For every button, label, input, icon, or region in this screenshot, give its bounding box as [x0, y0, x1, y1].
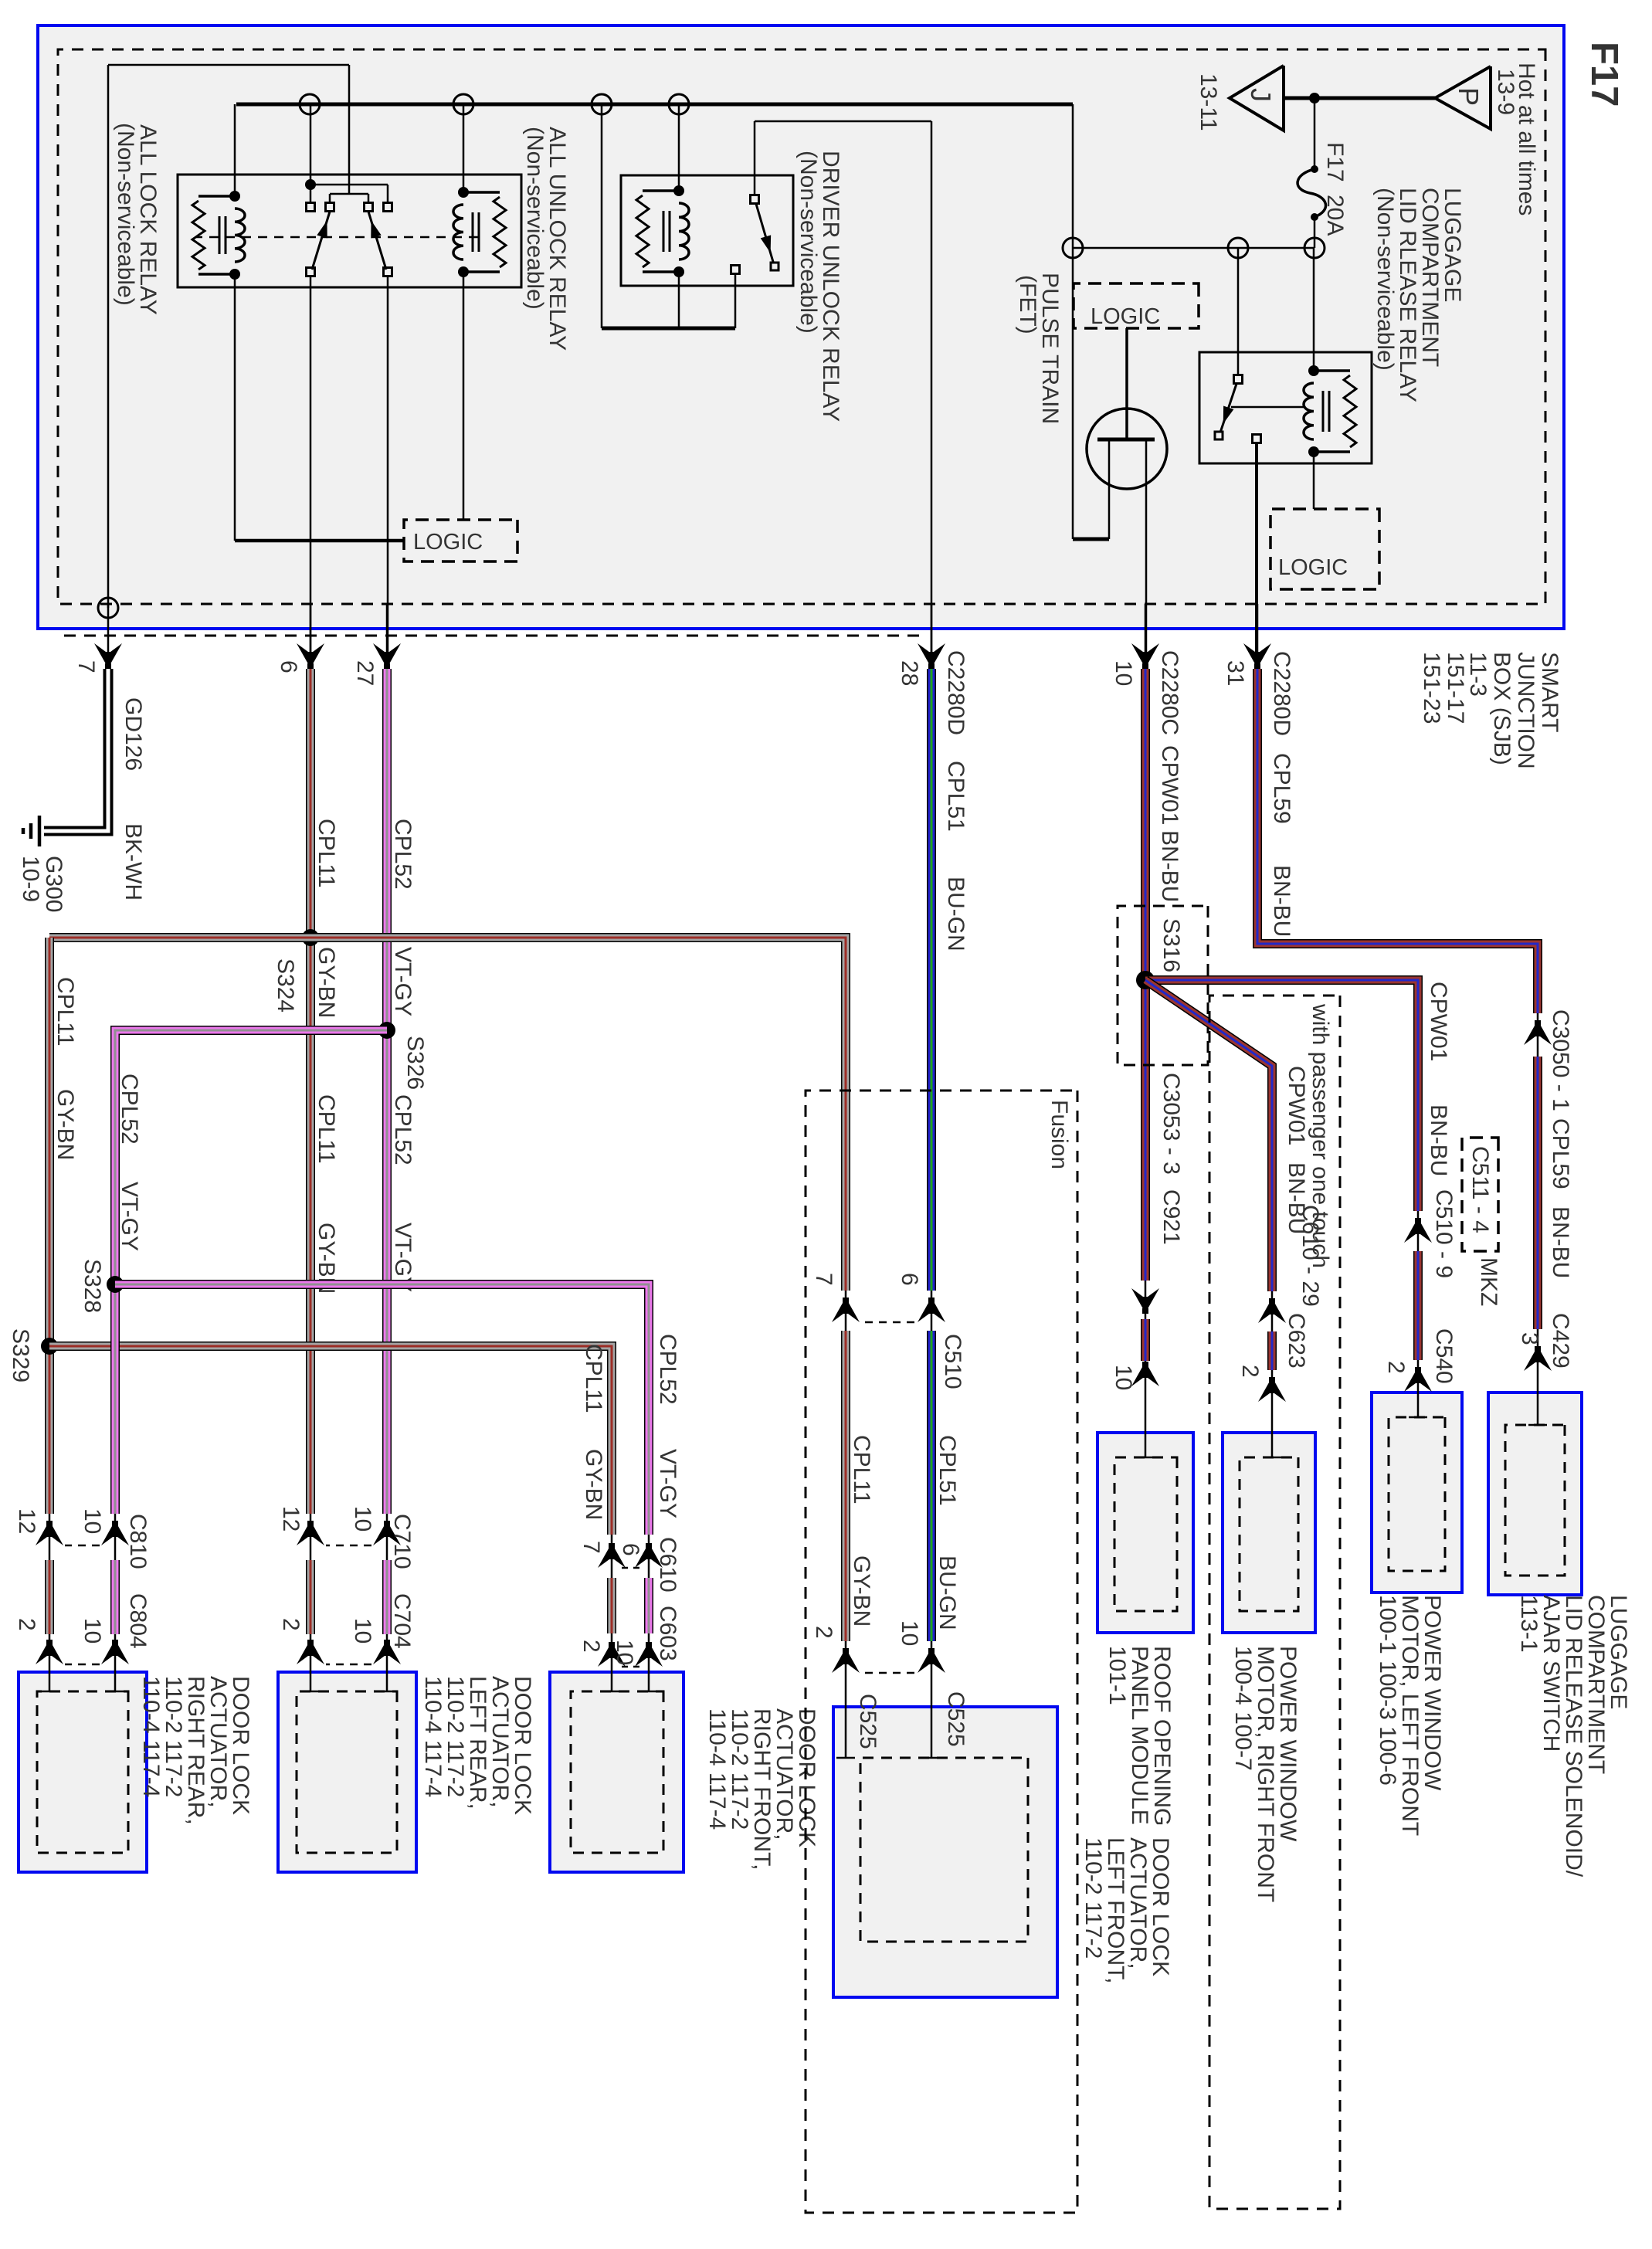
svg-text:CPL11: CPL11	[314, 819, 339, 888]
connector C510 pins 6 7	[811, 1273, 965, 1389]
svg-text:(Non-serviceable): (Non-serviceable)	[1372, 188, 1398, 371]
svg-text:2: 2	[1383, 1361, 1409, 1374]
connector C3050 - 1	[1524, 1009, 1573, 1111]
svg-text:LOGIC: LOGIC	[1091, 304, 1160, 329]
svg-text:CPW01: CPW01	[1284, 1066, 1309, 1145]
label CPL11 GY-BN (3)	[53, 977, 78, 1160]
option box Fusion	[806, 1091, 1077, 2213]
svg-text:6: 6	[897, 1273, 922, 1286]
svg-text:(FET): (FET)	[1015, 275, 1040, 334]
wire S324 branch CPL11	[49, 938, 855, 1758]
wire S326 branch to S328	[106, 1030, 387, 1691]
svg-text:BU-GN: BU-GN	[943, 877, 968, 951]
svg-text:2: 2	[1237, 1365, 1263, 1378]
label ALL UNLOCK RELAY	[522, 127, 570, 351]
label CPW01 BN-BU (branch LF)	[1426, 982, 1451, 1176]
svg-text:C2280D: C2280D	[943, 650, 968, 735]
svg-text:MKZ: MKZ	[1476, 1257, 1501, 1306]
dashed linkage line relays	[196, 236, 478, 239]
svg-text:with passenger one touch: with passenger one touch	[1308, 1003, 1333, 1268]
svg-text:110-4 117-4: 110-4 117-4	[420, 1676, 446, 1797]
svg-text:GY-BN: GY-BN	[849, 1555, 874, 1627]
svg-text:P: P	[1453, 87, 1484, 106]
connector pin 27 SJB exit	[352, 604, 401, 686]
option box MKZ C511 - 4	[1462, 1138, 1501, 1306]
LOGIC box 1	[404, 520, 517, 561]
label DRIVER UNLOCK RELAY	[795, 151, 843, 422]
wire CPL51 BU-GN	[922, 669, 941, 1758]
svg-text:(Non-serviceable): (Non-serviceable)	[795, 151, 821, 334]
svg-text:CPL11: CPL11	[849, 1435, 874, 1504]
svg-text:C429: C429	[1548, 1313, 1573, 1369]
svg-text:LOGIC: LOGIC	[413, 530, 483, 555]
svg-text:BN-BU: BN-BU	[1548, 1206, 1573, 1278]
splice S326	[378, 1022, 428, 1090]
svg-text:LOGIC: LOGIC	[1278, 555, 1348, 580]
svg-text:S324: S324	[273, 958, 298, 1013]
svg-text:CPL59: CPL59	[1269, 753, 1294, 824]
splice S324	[273, 929, 319, 1013]
wire CPL11 GY-BN main	[301, 669, 320, 1691]
svg-text:C510 - 9: C510 - 9	[1431, 1189, 1457, 1278]
power triangle P	[1435, 66, 1491, 129]
label Hot at all times 13-9	[1493, 63, 1539, 215]
svg-text:12: 12	[278, 1506, 304, 1532]
label CPL52 VT-GY (3)	[117, 1074, 142, 1251]
svg-text:S329: S329	[8, 1328, 33, 1382]
wire CPW01 BN-BU	[1136, 669, 1155, 1457]
svg-text:(Non-serviceable): (Non-serviceable)	[522, 127, 548, 310]
label CPL11 GY-BN (2)	[314, 1094, 339, 1294]
splice S329	[8, 1328, 58, 1382]
switch ALL LOCK/UNLOCK contacts	[305, 104, 392, 276]
coil LUGGAGE relay	[1304, 248, 1356, 509]
svg-text:C603: C603	[655, 1606, 680, 1661]
svg-text:7: 7	[73, 660, 99, 673]
svg-text:10: 10	[897, 1620, 922, 1646]
label CPL11 GY-BN (4)	[581, 1344, 606, 1520]
switch LUGGAGE relay contact	[1215, 248, 1304, 443]
svg-text:S328: S328	[80, 1259, 105, 1313]
wire S329 branch to C610	[49, 1346, 621, 1691]
svg-text:GY-BN: GY-BN	[314, 947, 339, 1018]
svg-text:6: 6	[276, 660, 301, 673]
svg-text:VT-GY: VT-GY	[117, 1182, 142, 1251]
svg-text:2: 2	[578, 1640, 604, 1653]
component LUGGAGE LID RELEASE SOLENOID / AJAR SWITCH	[1488, 1392, 1631, 1878]
relay box LUGGAGE LID RELEASE	[1199, 352, 1372, 463]
svg-text:CPW01: CPW01	[1157, 745, 1182, 825]
label CPL51 BU-GN (2)	[935, 1435, 960, 1630]
connector C704 pins 10 2	[278, 1593, 415, 1664]
wire relay return frame	[108, 65, 349, 608]
svg-text:7: 7	[578, 1541, 604, 1554]
svg-text:BN-BU: BN-BU	[1426, 1104, 1451, 1176]
connector C429 pin 3	[1517, 1313, 1573, 1371]
svg-text:BN-BU: BN-BU	[1269, 865, 1294, 937]
SJB connector face dashed line	[58, 635, 919, 637]
svg-text:151-17: 151-17	[1443, 652, 1468, 724]
relay box ALL LOCK / ALL UNLOCK	[178, 175, 521, 287]
label ALL LOCK RELAY	[113, 123, 161, 315]
connector pin 31 SJB exit	[1223, 604, 1271, 686]
connector C921 pin 10	[1111, 1189, 1184, 1390]
svg-text:C3050 - 1: C3050 - 1	[1548, 1009, 1573, 1111]
node circle rail bottom	[1063, 238, 1083, 258]
connector C525 pins 10 2	[811, 1620, 968, 1749]
svg-text:10: 10	[80, 1618, 105, 1643]
connector C610 pins 6 7	[578, 1537, 680, 1593]
svg-text:G300: G300	[41, 856, 66, 912]
label CPL52 VT-GY (2)	[390, 1094, 416, 1292]
svg-text:151-23: 151-23	[1419, 652, 1444, 724]
coil ALL UNLOCK relay	[453, 104, 506, 520]
wire pin27 internal	[387, 276, 388, 656]
svg-text:C511 - 4: C511 - 4	[1467, 1146, 1493, 1233]
svg-text:J: J	[1245, 88, 1277, 102]
coil DRIVER UNLOCK relay	[636, 104, 689, 328]
svg-text:CPL52: CPL52	[655, 1334, 680, 1405]
component DOOR LOCK ACTUATOR RIGHT FRONT	[550, 1672, 819, 1872]
wire CPL59 BN-BU	[1257, 669, 1547, 1425]
wire internal bus (thick)	[236, 104, 1073, 539]
svg-text:20A: 20A	[1322, 195, 1348, 236]
label LUGGAGE COMPARTMENT LID RELEASE RELAY	[1372, 188, 1465, 402]
page title F17	[1583, 42, 1625, 107]
svg-text:JUNCTION: JUNCTION	[1513, 652, 1538, 769]
switch DRIVER UNLOCK contact	[731, 121, 779, 274]
wire S328 branch to C610	[115, 1284, 658, 1691]
svg-text:GY-BN: GY-BN	[581, 1449, 606, 1520]
label CPL11 GY-BN (1)	[314, 819, 339, 1018]
svg-text:C2280D: C2280D	[1269, 651, 1294, 736]
connector C540 pin 2	[1383, 1328, 1457, 1392]
svg-text:F17: F17	[1583, 42, 1625, 107]
svg-text:27: 27	[352, 660, 378, 686]
svg-text:VT-GY: VT-GY	[390, 947, 416, 1016]
wire power feed	[1284, 97, 1435, 100]
svg-text:C3053 - 3: C3053 - 3	[1158, 1073, 1184, 1175]
node circle rail mid	[1228, 238, 1248, 258]
connector C710 pins 10 12	[278, 1506, 415, 1569]
svg-text:2: 2	[278, 1618, 304, 1631]
svg-text:13-11: 13-11	[1196, 73, 1221, 131]
node circle bus 1	[669, 94, 689, 114]
label CPL52 VT-GY (1)	[390, 819, 416, 1016]
svg-text:(Non-serviceable): (Non-serviceable)	[113, 123, 138, 306]
connector pin 10 SJB exit	[1111, 604, 1159, 686]
svg-text:100-4 100-7: 100-4 100-7	[1230, 1646, 1256, 1771]
svg-text:2: 2	[14, 1618, 39, 1631]
svg-text:SMART: SMART	[1537, 652, 1562, 732]
svg-text:101-1: 101-1	[1104, 1646, 1130, 1705]
label C2280D CPL51 BU-GN	[943, 650, 968, 951]
node circle fuse output	[1304, 238, 1325, 258]
label CPW01 BN-BU (branch RF)	[1284, 1066, 1309, 1234]
wire driver coil return (thick)	[602, 104, 735, 328]
component DOOR LOCK ACTUATOR LEFT FRONT	[833, 1707, 1173, 1997]
connector C804 pins 10 2	[14, 1593, 151, 1664]
svg-text:F17: F17	[1322, 142, 1348, 182]
svg-text:7: 7	[811, 1273, 836, 1286]
svg-text:10: 10	[1111, 660, 1136, 686]
component DOOR LOCK ACTUATOR LEFT REAR	[278, 1672, 535, 1872]
connector C610 - 29	[1258, 1205, 1323, 1323]
power triangle J	[1230, 66, 1284, 131]
svg-text:C810: C810	[125, 1514, 151, 1569]
label CPL52 VT-GY (4)	[655, 1334, 680, 1518]
svg-text:C510: C510	[940, 1334, 965, 1389]
svg-text:CPL52: CPL52	[390, 819, 416, 890]
splice S316	[1118, 906, 1208, 1065]
wire S329 lower CPL11	[40, 938, 59, 1691]
svg-text:C525: C525	[943, 1691, 968, 1747]
svg-text:CPW01: CPW01	[1426, 982, 1451, 1061]
node circle ground exit	[98, 598, 118, 618]
svg-text:113-1: 113-1	[1516, 1595, 1542, 1653]
wire pin6 internal	[310, 276, 312, 655]
component POWER WINDOW MOTOR RIGHT FRONT	[1223, 1433, 1315, 1902]
svg-text:BN-BU: BN-BU	[1157, 830, 1182, 902]
svg-text:110-4 117-4: 110-4 117-4	[138, 1676, 164, 1797]
connector pin 6 SJB exit	[276, 604, 324, 673]
svg-text:C525: C525	[855, 1694, 880, 1749]
node circle bus 4	[300, 94, 320, 114]
connector C810 pins 10 12	[14, 1508, 151, 1569]
component POWER WINDOW MOTOR LEFT FRONT	[1372, 1392, 1462, 1836]
coil ALL LOCK relay	[192, 104, 404, 541]
svg-text:28: 28	[897, 660, 922, 686]
svg-text:BOX (SJB): BOX (SJB)	[1489, 652, 1515, 765]
label GD126 BK-WH	[120, 697, 146, 901]
label CPL59 BN-BU (2)	[1548, 1118, 1573, 1278]
svg-text:10: 10	[1111, 1365, 1136, 1390]
svg-text:110-2 117-2: 110-2 117-2	[1080, 1837, 1106, 1959]
svg-text:C804: C804	[125, 1593, 151, 1649]
wire pin31 internal (thick)	[1255, 443, 1258, 656]
wire pin28 internal	[755, 121, 931, 655]
svg-text:C610: C610	[655, 1537, 680, 1593]
svg-text:CPL51: CPL51	[935, 1435, 960, 1506]
junction dot power/fuse	[1309, 93, 1320, 103]
label 13-11	[1196, 73, 1221, 131]
svg-text:S316: S316	[1158, 918, 1184, 972]
svg-text:10: 10	[612, 1640, 637, 1665]
node circle bus 3	[453, 94, 473, 114]
svg-text:110-4 117-4: 110-4 117-4	[704, 1708, 730, 1830]
svg-text:GY-BN: GY-BN	[53, 1089, 78, 1160]
relay box DRIVER UNLOCK	[621, 175, 793, 286]
svg-text:VT-GY: VT-GY	[655, 1449, 680, 1518]
connector pin 7 SJB exit	[73, 604, 122, 673]
label SMART JUNCTION BOX (SJB)	[1419, 652, 1562, 769]
svg-text:3: 3	[1517, 1332, 1542, 1345]
wire GD126 BK-WH	[44, 669, 108, 831]
svg-text:C921: C921	[1158, 1189, 1184, 1245]
SJB dashed border	[58, 49, 1545, 604]
component ROOF OPENING PANEL MODULE	[1097, 1433, 1193, 1826]
svg-text:C540: C540	[1431, 1328, 1457, 1384]
label C2280D CPL59 BN-BU	[1269, 651, 1294, 937]
svg-text:10-9: 10-9	[18, 856, 43, 902]
svg-text:CPL52: CPL52	[117, 1074, 142, 1145]
fuse F17 20A	[1298, 98, 1348, 248]
SJB outer box (blue)	[38, 25, 1564, 629]
svg-text:C710: C710	[389, 1514, 415, 1569]
connector C623 pin 2	[1237, 1313, 1309, 1402]
component DOOR LOCK ACTUATOR RIGHT REAR	[19, 1672, 253, 1872]
svg-text:2: 2	[811, 1626, 836, 1639]
label C2280C CPW01 BN-BU	[1157, 650, 1182, 902]
connector pin 28 SJB exit	[897, 604, 945, 686]
svg-text:6: 6	[618, 1543, 643, 1556]
svg-text:10: 10	[350, 1506, 375, 1532]
option box with passenger one touch	[1209, 996, 1340, 2209]
connector C3053 - 3	[1131, 1073, 1184, 1314]
svg-text:31: 31	[1223, 660, 1248, 686]
svg-text:GD126: GD126	[120, 697, 146, 771]
svg-text:CPL11: CPL11	[53, 977, 78, 1046]
connector C510 - 9	[1404, 1189, 1457, 1278]
svg-text:13-9: 13-9	[1493, 69, 1518, 115]
svg-text:C704: C704	[389, 1593, 415, 1649]
svg-text:10: 10	[350, 1618, 375, 1643]
svg-text:CPL51: CPL51	[943, 761, 968, 832]
svg-text:100-1 100-3 100-6: 100-1 100-3 100-6	[1375, 1595, 1400, 1786]
svg-text:C2280C: C2280C	[1157, 650, 1182, 735]
svg-text:12: 12	[14, 1508, 39, 1534]
svg-text:10: 10	[80, 1508, 105, 1534]
svg-text:Fusion: Fusion	[1046, 1100, 1072, 1169]
svg-text:CPL52: CPL52	[390, 1094, 416, 1165]
wire internal rail	[1073, 247, 1314, 249]
svg-text:C623: C623	[1284, 1313, 1309, 1369]
label CPL11 GY-BN (5)	[849, 1435, 874, 1627]
label PULSE TRAIN (FET)	[1015, 273, 1063, 424]
svg-text:CPL11: CPL11	[314, 1094, 339, 1164]
node circle bus 2	[592, 94, 612, 114]
wire CPL52 VT-GY main	[378, 669, 396, 1691]
svg-text:S326: S326	[402, 1036, 428, 1090]
connector C603 pins 10 2	[578, 1606, 680, 1667]
splice S328	[80, 1259, 124, 1313]
transistor FET pulse train	[1073, 328, 1167, 655]
svg-text:CPL11: CPL11	[581, 1344, 606, 1413]
ground G300	[18, 816, 66, 912]
svg-text:BK-WH: BK-WH	[120, 823, 146, 901]
LOGIC box 3 (luggage relay)	[1270, 509, 1379, 589]
wire CPW01 branch left-front window	[1145, 980, 1427, 1417]
svg-text:CPL59: CPL59	[1548, 1118, 1573, 1189]
wire CPW01 branch right-front window	[1145, 980, 1281, 1457]
svg-text:BU-GN: BU-GN	[935, 1555, 960, 1630]
LOGIC box 2 (FET gate)	[1074, 283, 1199, 329]
